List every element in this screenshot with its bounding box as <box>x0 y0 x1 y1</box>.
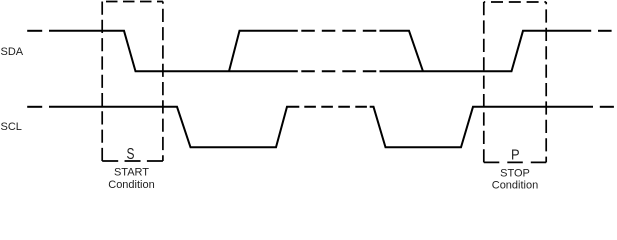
STOP condition box right edge (dashed) <box>545 2 547 162</box>
START condition box left edge (dashed) <box>101 2 103 162</box>
STOP condition box bottom edge (dashed) <box>484 161 546 163</box>
svg-text:SDA: SDA <box>1 46 24 58</box>
wire SCL high dashed continuation <box>299 106 369 108</box>
START condition box right edge (dashed) <box>162 2 164 162</box>
wire SDA high dashed continuation <box>298 30 380 32</box>
wire SDA leading dash (high) <box>27 30 42 32</box>
wire SCL trace: fall, low, rise, high to right <box>370 107 593 148</box>
svg-text:SCL: SCL <box>1 121 22 133</box>
STOP condition box left edge (dashed) <box>483 2 485 162</box>
START condition box bottom edge (dashed) <box>102 160 163 162</box>
svg-text:Condition: Condition <box>492 180 538 192</box>
START condition box top edge (dashed) <box>102 1 163 3</box>
wire SCL trailing dash (high) <box>600 106 614 108</box>
svg-text:P: P <box>511 147 520 164</box>
wire SDA low dashed continuation <box>298 70 380 72</box>
svg-text:STOP: STOP <box>500 168 530 180</box>
STOP condition box top edge (dashed) <box>484 1 546 3</box>
wire SCL main trace: high, fall, low, rise, high <box>49 107 299 148</box>
wire SCL leading dash (high) <box>27 106 42 108</box>
wire SDA trailing dash (high) <box>598 30 612 32</box>
wire SDA high branch solid then fall to low <box>380 31 424 72</box>
svg-text:Condition: Condition <box>108 179 154 191</box>
svg-text:S: S <box>127 146 135 163</box>
wire SDA low solid then rise at STOP then high to right <box>380 31 592 72</box>
svg-text:START: START <box>114 167 149 179</box>
wire SDA high branch rise and high segment <box>229 31 298 72</box>
wire SDA main trace: high, fall at START, low <box>49 31 298 72</box>
